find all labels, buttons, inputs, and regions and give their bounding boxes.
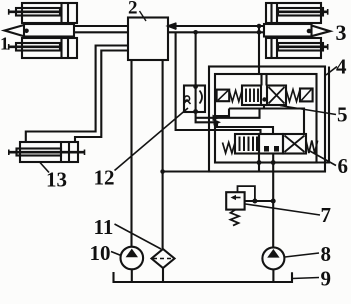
valve 5 solenoid left diagonal — [218, 91, 228, 101]
svg-text:5: 5 — [337, 103, 348, 127]
valve 6 middle blocks — [264, 146, 269, 152]
svg-text:1: 1 — [0, 34, 9, 54]
relief valve 7 arrow — [234, 197, 241, 199]
cylinder 1a body (top-left upper) — [22, 3, 77, 23]
piston lines cylinder 3b — [272, 38, 278, 58]
cylinder 3b body (top-right lower) — [266, 38, 321, 58]
node drain branch — [160, 169, 165, 174]
tank line 9 — [114, 272, 293, 282]
rod line 3b — [278, 45, 328, 48]
svg-text:11: 11 — [94, 215, 114, 239]
cylinder 3a body (top-right upper) — [266, 3, 321, 23]
wire filter 11 to tank — [162, 268, 164, 282]
node feed right upper — [257, 24, 262, 29]
rod line 3a — [278, 11, 328, 14]
valve 5 spring left — [229, 91, 242, 102]
svg-text:6: 6 — [338, 154, 349, 178]
valve block outer box 4 — [209, 67, 325, 172]
arrowhead into box 2 — [169, 23, 177, 29]
valve 12 check ball — [184, 96, 189, 101]
wire box2 to right cylinders upper — [168, 25, 264, 27]
wire under valve 5 — [229, 109, 304, 136]
flow arrowhead upper input — [213, 115, 221, 121]
valve block inner box — [215, 74, 317, 163]
wire valve5 top port channel — [262, 74, 267, 86]
valve 5 solenoid right diagonal — [301, 90, 311, 101]
piston rod 13 — [17, 149, 62, 156]
svg-text:12: 12 — [94, 165, 115, 189]
valve 6 spring right — [306, 141, 318, 154]
leader label 12 — [115, 108, 189, 171]
wire valve6 bottom port left — [258, 154, 260, 172]
valve 6 spring left — [223, 143, 236, 154]
filter 11 dashed line — [153, 258, 173, 260]
valve 6 box1 flow lines — [240, 137, 258, 152]
leader label 4 — [326, 67, 337, 76]
node feed right lower — [257, 30, 262, 35]
filter 11 diamond — [152, 249, 175, 268]
node valve12 branch — [193, 30, 198, 35]
cylinder 13 body — [20, 142, 78, 162]
pump 10 triangle — [126, 249, 138, 258]
pump 8 circle — [262, 247, 284, 269]
valve 6 position box 1 — [235, 134, 259, 154]
valve 5 solenoid left — [217, 90, 230, 102]
control unit box 2 — [128, 18, 168, 61]
svg-text:2: 2 — [128, 0, 138, 19]
pump 8 triangle — [267, 249, 279, 258]
wire valve 12 feed — [195, 32, 197, 85]
node on right rod — [307, 29, 312, 34]
leader label 7 — [246, 204, 321, 215]
leader label 10 — [111, 252, 121, 256]
valve 5 solenoid right — [300, 89, 313, 102]
wire valve12 to block upper input — [196, 109, 273, 135]
arrow output right — [312, 26, 331, 37]
valve 5 spring right — [286, 90, 300, 102]
svg-text:3: 3 — [336, 20, 347, 45]
piston lines cylinder 13 — [61, 142, 69, 162]
node valve 12 bottom — [193, 109, 198, 114]
valve 5 crossed paths — [269, 87, 285, 104]
valve 6 position box middle — [259, 134, 283, 154]
leader label 2 — [140, 11, 147, 21]
relief valve 7 pilot line — [238, 186, 255, 201]
wire pump 10 to tank — [131, 269, 133, 282]
wire drain branch to block — [163, 170, 209, 172]
wire box2 to filter 11 — [162, 60, 164, 249]
leader label 13 — [40, 163, 49, 173]
svg-text:10: 10 — [90, 241, 111, 265]
svg-text:9: 9 — [321, 267, 332, 291]
wire feed down to valve block — [258, 26, 260, 74]
wire box2 to right cylinders lower — [168, 31, 264, 33]
node valve 12 top — [193, 84, 198, 89]
svg-text:7: 7 — [321, 203, 332, 227]
node main line junction — [271, 199, 276, 204]
piston rod 3a — [278, 8, 323, 16]
wire box2 left port A — [26, 46, 128, 143]
relief valve 7 box — [226, 192, 244, 209]
svg-text:4: 4 — [336, 55, 347, 79]
node on left rod — [24, 29, 29, 34]
outer box double right edge — [317, 67, 330, 163]
piston rod 3b — [278, 43, 323, 51]
valve 5 gap bottom — [261, 104, 267, 106]
node pilot junction — [252, 199, 257, 204]
rod line 1b — [9, 45, 60, 48]
center rod left block — [24, 24, 74, 37]
piston lines cylinder 3a — [272, 3, 278, 23]
relief valve 7 spring — [231, 210, 240, 226]
wire box2 to pump 10 — [130, 60, 132, 247]
wire branch feed left (to valve block lower input) — [176, 32, 261, 134]
valve 6 position box X — [283, 134, 306, 154]
piston lines cylinder 1a — [62, 3, 69, 23]
piston rod 1b — [16, 43, 60, 51]
wire stub valve5 left port — [216, 109, 230, 117]
rod line 1a — [9, 11, 60, 14]
piston rod 1a — [16, 8, 60, 16]
arrow output left — [5, 25, 25, 36]
wire box2 left port B — [75, 51, 128, 143]
leader label 6 — [308, 150, 336, 166]
piston lines cylinder 1b — [62, 38, 69, 58]
leader label 8 — [285, 253, 319, 257]
valve 5 box1 flow lines — [246, 89, 258, 103]
wire valve6 bottom port right to pump 8 — [272, 154, 274, 248]
flow arrowhead lower input — [214, 119, 222, 125]
valve 12 check seat — [184, 100, 191, 104]
valve 5 position box 1 — [242, 86, 261, 106]
pump 10 circle — [121, 247, 144, 270]
valve 5 position box 2 — [267, 86, 286, 106]
valve 12 throttle arc — [200, 91, 203, 104]
rod line 13 — [9, 151, 85, 154]
node valve 5 bottom — [262, 97, 266, 101]
center rod right block — [264, 24, 312, 37]
node valve6 drain right — [271, 160, 276, 165]
leader label 11 — [115, 224, 162, 249]
leader label 5 — [280, 106, 336, 115]
wire stub valve5 center port — [263, 105, 265, 109]
wire box2 to left cylinders lower — [74, 31, 128, 33]
valve 6 crossed paths — [285, 136, 305, 153]
wire pump 8 to tank — [272, 269, 274, 282]
valve 12 box — [184, 86, 205, 113]
svg-text:8: 8 — [321, 242, 332, 266]
relief valve 7 outlet — [245, 200, 274, 202]
valve 12 through line — [195, 86, 197, 113]
cylinder 1b body (top-left lower) — [22, 38, 77, 58]
svg-text:13: 13 — [46, 168, 67, 192]
leader label 9 — [292, 278, 319, 279]
wire box2 to left cylinders upper — [74, 25, 128, 27]
node valve6 drain left — [257, 160, 262, 165]
